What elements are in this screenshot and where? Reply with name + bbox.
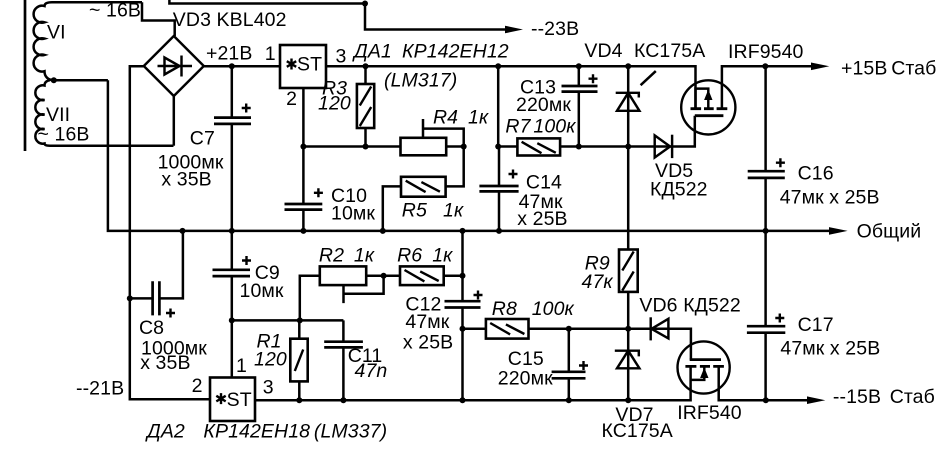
svg-text:1: 1 [236, 355, 247, 377]
svg-text:10мк: 10мк [331, 203, 375, 225]
svg-text:R2: R2 [319, 245, 344, 267]
svg-text:2: 2 [192, 375, 203, 397]
svg-text:Общий: Общий [857, 221, 922, 243]
svg-text:КР142ЕН12: КР142ЕН12 [402, 41, 509, 63]
svg-text:VI: VI [47, 22, 66, 44]
svg-text:VD4: VD4 [584, 40, 622, 62]
svg-text:х 35В: х 35В [161, 169, 211, 191]
svg-text:VD6: VD6 [639, 295, 677, 317]
svg-text:ДА2: ДА2 [145, 421, 185, 443]
svg-text:47n: 47n [355, 360, 388, 382]
svg-text:R7: R7 [505, 116, 531, 138]
svg-text:47мк: 47мк [405, 311, 449, 333]
svg-text:220мк: 220мк [498, 368, 553, 390]
svg-text:КР142ЕН18: КР142ЕН18 [203, 421, 310, 443]
svg-text:КС175А: КС175А [602, 420, 673, 442]
svg-text:КД522: КД522 [650, 179, 708, 201]
svg-text:ST: ST [227, 389, 252, 411]
svg-text:ДА1: ДА1 [352, 41, 392, 63]
svg-text:47мк x 25В: 47мк x 25В [780, 338, 880, 360]
svg-text:Стаб: Стаб [891, 58, 936, 80]
svg-text:1: 1 [265, 43, 276, 65]
svg-text:47к: 47к [582, 271, 614, 293]
svg-text:~ 16В: ~ 16В [38, 124, 90, 146]
svg-text:120: 120 [254, 349, 287, 371]
svg-text:х 35В: х 35В [140, 352, 190, 374]
svg-text:--15В: --15В [833, 386, 881, 408]
svg-text:Стаб: Стаб [890, 386, 935, 408]
svg-text:1к: 1к [432, 245, 453, 267]
svg-text:+21В: +21В [206, 43, 252, 65]
svg-text:120: 120 [318, 93, 351, 115]
svg-text:2: 2 [286, 88, 297, 110]
svg-text:(LM337): (LM337) [314, 421, 387, 443]
svg-text:--21В: --21В [76, 378, 124, 400]
svg-text:3: 3 [336, 46, 347, 68]
svg-text:C17: C17 [798, 314, 834, 336]
svg-text:х 25В: х 25В [403, 332, 453, 354]
svg-text:220мк: 220мк [516, 94, 571, 116]
svg-text:~ 16В: ~ 16В [89, 0, 141, 22]
svg-text:R4: R4 [433, 107, 458, 129]
svg-text:1к: 1к [354, 245, 375, 267]
svg-text:C16: C16 [798, 163, 834, 185]
svg-text:100к: 100к [533, 116, 576, 138]
svg-text:(LM317): (LM317) [384, 70, 457, 92]
svg-text:VD3 KBL402: VD3 KBL402 [173, 9, 287, 31]
svg-text:R8: R8 [492, 298, 517, 320]
svg-text:10мк: 10мк [240, 280, 284, 302]
svg-text:100к: 100к [532, 298, 575, 320]
svg-text:C7: C7 [190, 128, 215, 150]
svg-text:IRF9540: IRF9540 [728, 41, 804, 63]
svg-text:R5: R5 [402, 200, 427, 222]
svg-text:3: 3 [263, 377, 274, 399]
svg-text:1к: 1к [468, 107, 489, 129]
svg-text:47мк x 25В: 47мк x 25В [780, 187, 880, 209]
svg-text:IRF540: IRF540 [677, 402, 742, 424]
svg-text:--23В: --23В [531, 18, 579, 40]
svg-text:КС175А: КС175А [634, 40, 705, 62]
svg-text:КД522: КД522 [683, 295, 741, 317]
svg-text:ST: ST [297, 54, 322, 76]
svg-text:х 25В: х 25В [517, 208, 567, 230]
svg-text:C8: C8 [139, 317, 164, 339]
svg-text:1к: 1к [443, 200, 464, 222]
svg-text:R6: R6 [397, 245, 422, 267]
svg-text:+15В: +15В [841, 58, 887, 80]
